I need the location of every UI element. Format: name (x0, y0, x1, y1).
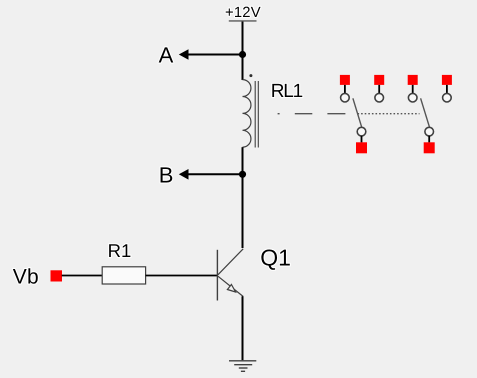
svg-text:R1: R1 (108, 240, 132, 261)
transistor Q1 emitter arrow (227, 285, 235, 293)
transistor Q1 collector lead (218, 249, 243, 275)
node A arrowhead (179, 49, 189, 60)
relay common 2 stem (428, 136, 430, 143)
ground bar 3 (239, 367, 248, 369)
resistor R1 body (102, 267, 145, 284)
relay contact terminal 2 pad (374, 75, 384, 85)
ground bar 4 (241, 370, 245, 372)
relay common 2 pad (424, 142, 435, 153)
relay contact terminal 4 pad (442, 75, 452, 85)
relay contact terminal 3 stem (412, 85, 414, 93)
node A junction dot (239, 51, 246, 58)
svg-text:Vb: Vb (13, 266, 39, 289)
wire: node B arrow line (187, 173, 243, 175)
relay common 2 circle (425, 127, 434, 136)
relay contact terminal 1 circle (341, 93, 350, 102)
relay contact terminal 2 stem (378, 85, 380, 93)
svg-text:+12V: +12V (225, 5, 261, 21)
transistor Q1 base bar (216, 250, 218, 301)
relay switch arm 2 (421, 98, 430, 127)
node Vb terminal pad (51, 270, 63, 281)
relay common 1 stem (361, 136, 363, 143)
linkage dotted line between contact arms (358, 113, 420, 115)
relay coil RL1 core line 1 (254, 81, 256, 148)
svg-text:Q1: Q1 (260, 245, 291, 271)
ground bar 1 (229, 360, 256, 362)
relay common 1 circle (357, 127, 366, 136)
wire: coil bottom through node B to transistor collector (242, 147, 244, 248)
wire: +12V bar to coil top (242, 22, 244, 81)
node B junction dot (239, 171, 246, 178)
linkage dash-dot line from coil (278, 113, 346, 115)
transistor Q1 emitter lead (218, 276, 243, 296)
relay contact terminal 1 pad (340, 75, 350, 85)
relay contact terminal 4 stem (446, 85, 448, 93)
relay contact terminal 2 circle (375, 93, 384, 102)
wire: emitter to ground (242, 296, 244, 360)
relay contact terminal 3 pad (408, 75, 418, 85)
relay switch arm 1 (353, 98, 362, 127)
relay contact terminal 3 circle (408, 93, 417, 102)
wire: node A arrow line (187, 54, 243, 56)
wire: R1 to transistor base (146, 275, 217, 277)
power rail bar +12V (229, 20, 257, 22)
svg-text:A: A (159, 43, 174, 68)
ground bar 2 (234, 364, 252, 366)
node B arrowhead (179, 169, 189, 180)
svg-text:RL1: RL1 (271, 81, 303, 102)
relay common 1 pad (356, 142, 367, 153)
wire: Vb to R1 (62, 275, 102, 277)
relay coil RL1 polarity dot (249, 74, 252, 77)
relay coil RL1 winding (243, 80, 251, 148)
relay contact terminal 4 circle (443, 93, 452, 102)
relay coil RL1 core line 2 (257, 81, 259, 148)
svg-text:B: B (159, 162, 174, 187)
relay contact terminal 1 stem (344, 85, 346, 93)
